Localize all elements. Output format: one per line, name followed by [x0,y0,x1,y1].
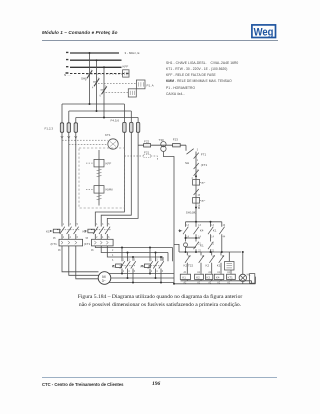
svg-text:13: 13 [186,225,189,227]
svg-text:6: 6 [162,271,164,273]
svg-text:61: 61 [222,256,225,258]
svg-text:3~: 3~ [102,279,106,283]
svg-text:C: C [202,181,205,185]
svg-text:6: 6 [112,260,114,262]
svg-text:K2: K2 [83,229,87,233]
svg-text:5: 5 [77,224,79,226]
svg-text:T30: T30 [159,138,165,142]
svg-text:KFF: KFF [123,65,129,69]
svg-text:95: 95 [53,238,56,240]
svg-text:K3: K3 [207,276,211,280]
svg-text:KT1: KT1 [105,133,111,137]
svg-text:96: 96 [91,250,94,252]
svg-text:K2 T22: K2 T22 [184,264,194,268]
svg-text:FT1: FT1 [201,153,207,157]
svg-text:M: M [102,274,105,279]
svg-text:14: 14 [211,237,214,239]
svg-text:B: B [198,206,200,210]
svg-text:SH: SH [185,161,189,165]
svg-text:6: 6 [77,237,79,239]
svg-text:F22: F22 [144,139,150,143]
svg-text:K1: K1 [200,244,204,248]
svg-text:K4: K4 [141,264,145,268]
svg-text:KFF: KFF [106,162,112,166]
svg-text:C: C [202,199,205,203]
svg-text:K3: K3 [112,264,116,268]
svg-text:21: 21 [202,256,205,258]
svg-text:3 - 60Hz, E: 3 - 60Hz, E [125,51,140,55]
svg-text:1: 1 [96,224,98,226]
svg-text:2: 2 [123,271,125,273]
svg-text:15: 15 [198,195,201,197]
svg-text:2: 2 [112,250,114,252]
svg-text:A1: A1 [197,271,201,274]
svg-text:4: 4 [70,237,72,239]
svg-text:K1: K1 [213,229,217,233]
svg-text:K2: K2 [206,264,210,268]
svg-text:K4: K4 [200,229,204,233]
svg-text:K1: K1 [217,264,221,268]
svg-text:3: 3 [197,150,199,152]
svg-text:13: 13 [198,225,201,227]
svg-text:KT1: KT1 [228,276,234,280]
svg-text:H1: H1 [247,273,251,277]
svg-text:A1: A1 [184,271,188,274]
svg-text:6: 6 [134,271,136,273]
svg-text:3: 3 [70,224,72,226]
svg-text:2: 2 [151,271,153,273]
svg-text:K2: K2 [196,276,200,280]
svg-text:F4,5,6: F4,5,6 [111,119,120,123]
svg-text:K1: K1 [182,276,186,280]
svg-text:SH1(M): SH1(M) [186,210,196,214]
svg-text:14: 14 [198,237,201,239]
svg-text:K4: K4 [216,276,220,280]
svg-text:13: 13 [211,225,214,227]
svg-text:P1. A: P1. A [147,84,154,88]
svg-text:A1: A1 [217,271,221,274]
svg-text:KMM: KMM [106,188,114,192]
svg-text:(FT1: (FT1 [84,242,91,246]
svg-text:F21: F21 [144,150,150,154]
svg-text:3: 3 [102,224,104,226]
svg-text:N .....: N ..... [64,73,71,77]
svg-text:6: 6 [100,96,102,98]
svg-text:44: 44 [223,237,226,239]
svg-text:1: 1 [197,160,199,162]
svg-text:1: 1 [63,224,65,226]
svg-text:2: 2 [96,237,98,239]
svg-text:5: 5 [108,224,110,226]
svg-text:4: 4 [128,271,130,273]
svg-text:6: 6 [108,237,110,239]
svg-text:K1: K1 [46,229,50,233]
svg-text:96: 96 [58,250,61,252]
svg-text:95: 95 [86,238,89,240]
svg-text:4: 4 [156,271,158,273]
svg-text:3: 3 [197,171,199,173]
svg-text:SH1: SH1 [81,77,87,81]
svg-text:(FT1: (FT1 [201,163,208,167]
svg-text:2: 2 [63,237,65,239]
svg-text:4: 4 [102,237,104,239]
svg-text:F23: F23 [173,138,179,142]
svg-text:(FT1: (FT1 [51,242,58,246]
svg-text:A1: A1 [227,271,231,274]
svg-text:43: 43 [188,256,191,258]
svg-text:21: 21 [212,256,215,258]
svg-text:21: 21 [211,244,214,246]
svg-text:F1,2,3: F1,2,3 [45,127,54,131]
svg-text:43: 43 [223,225,226,227]
svg-text:4: 4 [92,88,94,90]
